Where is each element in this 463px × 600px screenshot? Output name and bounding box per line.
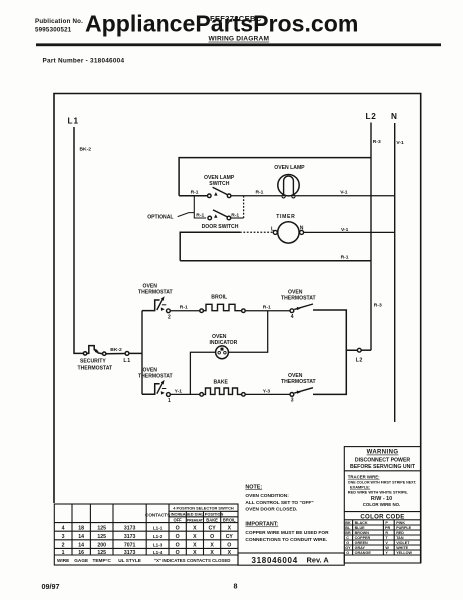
svg-text:TEMP°C: TEMP°C: [93, 558, 112, 563]
svg-text:BLACK: BLACK: [355, 521, 368, 525]
svg-text:RED: RED: [396, 531, 404, 535]
oven thermostat (pin 4): [281, 289, 317, 320]
svg-text:X: X: [193, 525, 197, 531]
svg-text:PR: PR: [385, 526, 390, 530]
svg-text:4: 4: [62, 525, 65, 531]
svg-text:COPPER: COPPER: [355, 536, 371, 540]
svg-text:ORANGE: ORANGE: [355, 551, 372, 555]
svg-text:14: 14: [78, 534, 84, 540]
svg-text:3173: 3173: [124, 550, 136, 556]
svg-text:THERMOSTAT: THERMOSTAT: [78, 365, 114, 371]
outer frame: [54, 94, 421, 564]
svg-text:VIOLET: VIOLET: [396, 541, 410, 545]
wire V-1 lamp to N: [295, 195, 395, 197]
svg-text:COLOR WIRE NO.: COLOR WIRE NO.: [363, 502, 401, 507]
security thermostat arrowhead: [95, 349, 99, 353]
svg-text:R-1: R-1: [263, 305, 271, 311]
svg-text:CONTACTS: CONTACTS: [145, 512, 170, 517]
oven thermostat (pin 3): [281, 373, 317, 404]
svg-text:V-1: V-1: [340, 189, 348, 195]
svg-text:OVEN: OVEN: [143, 367, 158, 373]
svg-text:THERMOSTAT: THERMOSTAT: [138, 373, 174, 379]
part number rev box: [238, 553, 344, 565]
svg-text:BROWN: BROWN: [355, 531, 370, 535]
svg-text:TIMER: TIMER: [276, 214, 295, 220]
node L1 (selector terminal): [125, 352, 129, 356]
color code entries: [345, 521, 412, 555]
warning and color code box: [344, 447, 420, 563]
svg-text:BL: BL: [345, 526, 351, 530]
svg-text:L: L: [271, 227, 274, 233]
svg-text:O: O: [210, 534, 214, 540]
svg-text:BK: BK: [345, 521, 351, 525]
svg-text:WIRING DIAGRAM: WIRING DIAGRAM: [209, 36, 270, 43]
svg-text:3: 3: [291, 398, 294, 404]
svg-text:X: X: [193, 550, 197, 556]
svg-text:2: 2: [62, 543, 65, 549]
svg-text:TRACER WIRE:: TRACER WIRE:: [348, 475, 380, 480]
svg-text:L1-4: L1-4: [153, 550, 163, 555]
svg-text:ALL CONTROL SET TO "OFF": ALL CONTROL SET TO "OFF": [245, 500, 313, 506]
svg-text:"X" INDICATES CONTACTS CLOSED: "X" INDICATES CONTACTS CLOSED: [154, 558, 230, 563]
svg-text:BROIL: BROIL: [211, 294, 227, 300]
svg-text:O: O: [346, 551, 349, 555]
wire V-1 timer to N: [304, 231, 395, 233]
svg-text:OVEN DOOR CLOSED.: OVEN DOOR CLOSED.: [245, 506, 297, 512]
svg-text:R-3: R-3: [373, 139, 381, 145]
svg-text:OFF: OFF: [174, 517, 183, 522]
wire selector trunk: [141, 311, 143, 395]
svg-text:L1-3: L1-3: [153, 543, 163, 548]
svg-text:C: C: [346, 536, 349, 540]
svg-text:200: 200: [97, 543, 106, 549]
wire timer box left: [180, 232, 240, 261]
svg-text:125: 125: [97, 534, 106, 540]
svg-text:R-1: R-1: [256, 189, 264, 195]
svg-text:R-3: R-3: [374, 303, 382, 309]
svg-text:GREEN: GREEN: [355, 541, 368, 545]
security thermostat: [83, 346, 106, 356]
svg-text:L1-2: L1-2: [153, 534, 163, 539]
svg-text:4: 4: [291, 314, 294, 320]
svg-text:Publication No.: Publication No.: [35, 18, 83, 25]
svg-text:L1-1: L1-1: [153, 525, 163, 530]
oven indicator lamp: [210, 334, 238, 359]
svg-text:DISCONNECT POWER: DISCONNECT POWER: [355, 458, 411, 464]
svg-text:NOTE:: NOTE:: [245, 484, 262, 490]
wire R-1 switch to lamp: [231, 195, 282, 197]
svg-text:WHITE: WHITE: [396, 546, 408, 550]
svg-text:16: 16: [78, 550, 84, 556]
wire lamp box top (L2 feed): [179, 158, 371, 196]
wire junction lamp switch to door switch: [194, 196, 206, 218]
wire R-1 thermostat to broil: [170, 310, 199, 312]
svg-text:L1: L1: [123, 358, 130, 364]
svg-text:125: 125: [97, 550, 106, 556]
svg-text:OVEN: OVEN: [288, 373, 303, 379]
svg-text:L1: L1: [68, 117, 80, 126]
svg-text:X: X: [193, 534, 197, 540]
svg-text:18: 18: [78, 525, 84, 531]
svg-text:R-1: R-1: [191, 189, 199, 195]
svg-text:WARNING: WARNING: [367, 450, 399, 456]
svg-text:THERMOSTAT: THERMOSTAT: [281, 379, 317, 385]
svg-text:CY: CY: [208, 525, 216, 531]
node L2 (selector terminal): [357, 348, 361, 352]
svg-text:RED WIRE WITH WHITE STRIPE.: RED WIRE WITH WHITE STRIPE.: [348, 489, 408, 494]
svg-text:OVEN: OVEN: [143, 284, 158, 290]
svg-text:BK-2: BK-2: [80, 147, 92, 153]
svg-text:3: 3: [62, 534, 65, 540]
svg-text:O: O: [176, 525, 180, 531]
wire thermostat 4 to L2 node: [313, 310, 346, 350]
svg-text:BR: BR: [345, 531, 351, 535]
wire node L1 to trunk: [129, 352, 142, 354]
wire dashed riser to lamp wire: [243, 196, 245, 218]
timer: [271, 214, 304, 243]
svg-text:COPPER WIRE MUST BE USED FOR: COPPER WIRE MUST BE USED FOR: [245, 530, 329, 536]
svg-text:W: W: [385, 546, 389, 550]
svg-text:BEFORE SERVICING UNIT: BEFORE SERVICING UNIT: [350, 464, 416, 470]
svg-text:BAKE: BAKE: [206, 517, 218, 522]
svg-text:1: 1: [62, 550, 65, 556]
svg-text:O: O: [227, 543, 231, 549]
svg-text:OPTIONAL: OPTIONAL: [147, 214, 173, 220]
svg-text:X: X: [210, 543, 214, 549]
svg-text:R: R: [385, 531, 388, 535]
wire thermostat 3 to L2 node: [313, 350, 357, 394]
svg-text:N: N: [300, 226, 304, 232]
svg-text:SWITCH: SWITCH: [209, 181, 229, 187]
svg-text:COLOR CODE: COLOR CODE: [360, 513, 404, 520]
svg-text:09/97: 09/97: [42, 582, 60, 591]
wire R-1 broil to oven thermostat 4: [245, 310, 290, 312]
svg-text:Rev. A: Rev. A: [307, 556, 330, 565]
svg-text:CONNECTIONS TO CONDUIT WIRE.: CONNECTIONS TO CONDUIT WIRE.: [245, 537, 327, 543]
svg-text:2: 2: [168, 314, 171, 320]
svg-text:THERMOSTAT: THERMOSTAT: [281, 295, 317, 301]
svg-text:YELLOW: YELLOW: [396, 551, 412, 555]
svg-text:IMPORTANT:: IMPORTANT:: [245, 522, 278, 528]
svg-text:FEF373CEBC: FEF373CEBC: [210, 14, 262, 23]
wire dashed to timer L: [240, 231, 273, 233]
svg-text:UL STYLE: UL STYLE: [118, 558, 141, 563]
wire L2 node to L2 trunk: [361, 349, 371, 351]
svg-text:X: X: [210, 550, 214, 556]
svg-text:THERMOSTAT: THERMOSTAT: [138, 290, 174, 296]
svg-text:WIRE: WIRE: [57, 558, 69, 563]
resistor BAKE element: [200, 388, 245, 396]
oven lamp switch: [179, 175, 235, 198]
svg-text:BK-2: BK-2: [110, 347, 122, 353]
svg-text:O: O: [176, 550, 180, 556]
svg-text:BROIL: BROIL: [223, 517, 236, 522]
svg-text:GY: GY: [345, 546, 351, 550]
svg-text:3173: 3173: [124, 525, 136, 531]
door switch: [196, 210, 239, 230]
svg-text:G: G: [346, 541, 349, 545]
selector switch table: [54, 504, 238, 565]
svg-text:R-1: R-1: [180, 305, 188, 311]
wire V-1 : N trunk: [394, 123, 396, 422]
wire indicator right to broil junction: [228, 311, 267, 353]
svg-text:SECURITY: SECURITY: [80, 359, 106, 365]
svg-text:5995300521: 5995300521: [35, 27, 72, 34]
svg-text:OVEN: OVEN: [288, 289, 303, 295]
svg-text:CY: CY: [226, 534, 234, 540]
svg-text:OVEN LAMP: OVEN LAMP: [204, 175, 235, 181]
svg-text:V-1: V-1: [341, 227, 349, 233]
svg-text:Y-1: Y-1: [175, 388, 183, 394]
svg-text:GRAY: GRAY: [355, 546, 366, 550]
wire R-1 timer box bottom to L2: [180, 260, 371, 262]
svg-text:O: O: [176, 534, 180, 540]
svg-text:PURPLE: PURPLE: [396, 526, 411, 530]
svg-text:X: X: [228, 550, 232, 556]
svg-text:V-1: V-1: [396, 140, 404, 146]
svg-text:4 POSITION SELECTOR SWITCH: 4 POSITION SELECTOR SWITCH: [173, 506, 234, 511]
svg-text:N: N: [391, 112, 397, 121]
svg-text:318046004: 318046004: [252, 556, 298, 565]
oven lamp: [274, 165, 305, 198]
wire R-3 : L2 trunk: [370, 123, 372, 351]
oven thermostat (bake, pin 1): [138, 367, 174, 404]
note text block: [245, 484, 329, 543]
oven thermostat (broil, pin 2): [138, 284, 174, 321]
svg-text:BAKE: BAKE: [214, 379, 229, 385]
svg-text:Part Number - 318046004: Part Number - 318046004: [43, 58, 125, 65]
wire indicator left to bake row: [190, 352, 215, 394]
svg-text:125: 125: [97, 525, 106, 531]
svg-text:DOOR SWITCH: DOOR SWITCH: [202, 224, 239, 230]
svg-text:INDICATOR: INDICATOR: [210, 340, 238, 346]
svg-text:OVEN CONDITION:: OVEN CONDITION:: [245, 493, 289, 499]
svg-text:Y-3: Y-3: [263, 388, 271, 394]
wire door switch to dashed riser: [231, 217, 244, 219]
svg-text:X: X: [228, 525, 232, 531]
svg-text:PINK: PINK: [396, 521, 405, 525]
svg-text:X: X: [193, 543, 197, 549]
svg-text:L2: L2: [366, 112, 377, 121]
wire Y-1 thermostat to bake: [170, 393, 199, 395]
svg-text:1: 1: [168, 398, 171, 404]
svg-text:OVEN LAMP: OVEN LAMP: [274, 165, 305, 171]
svg-text:7071: 7071: [124, 543, 136, 549]
svg-text:INCREASED DIAL POSITION: INCREASED DIAL POSITION: [171, 512, 224, 517]
wire Y-3 bake to oven thermostat 3: [245, 393, 290, 395]
resistor BROIL element: [200, 304, 245, 312]
wire BK-2 : L1 drop: [74, 127, 83, 353]
svg-text:BLUE: BLUE: [355, 526, 366, 530]
svg-text:3173: 3173: [124, 534, 136, 540]
header: thick rule: [36, 43, 441, 46]
svg-text:14: 14: [78, 543, 84, 549]
svg-text:8: 8: [234, 581, 238, 590]
svg-text:L2: L2: [356, 357, 363, 363]
svg-text:R-1: R-1: [341, 254, 349, 260]
svg-text:TAN: TAN: [396, 536, 404, 540]
svg-text:GAGE: GAGE: [74, 558, 88, 563]
wire BK-2 to node L1: [106, 353, 125, 355]
svg-text:PREHEAT: PREHEAT: [187, 518, 204, 522]
svg-text:R-1: R-1: [196, 212, 204, 218]
svg-text:O: O: [176, 543, 180, 549]
